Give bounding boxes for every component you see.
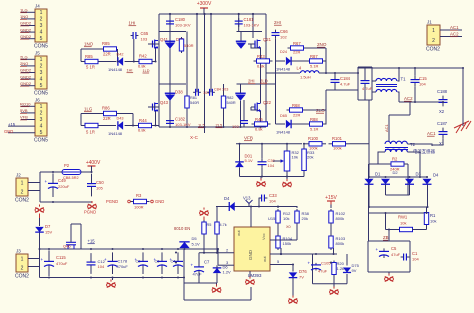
resistor R3 100R [131,199,150,203]
capacitor C4 [170,252,184,274]
transistor Q22 [251,103,261,113]
label C180 [175,17,186,22]
value 5.1R b [86,130,95,135]
svg-text:C181: C181 [244,17,255,22]
diode D01 zener 5.1V [235,162,244,167]
value 6.8k [138,64,146,69]
net label 2HI [274,20,282,25]
svg-text:22R: 22R [103,52,111,57]
svg-text:RO10: RO10 [20,102,31,107]
svg-text:4.7uF: 4.7uF [340,82,351,87]
resistor R88 5.1R [307,122,326,126]
svg-text:1N4148: 1N4148 [276,66,291,71]
svg-text:R42: R42 [139,54,147,59]
svg-text:R85: R85 [102,41,110,46]
value 10k [292,155,298,160]
wire gnd2 stub [286,177,288,181]
svg-text:P2: P2 [64,163,70,168]
inductor T1 primary [376,78,397,81]
svg-text:D7: D7 [45,224,51,229]
wire gnd row [240,176,305,178]
svg-text:5.1V: 5.1V [245,158,254,163]
net label AC2 j1 [450,32,459,37]
value 22R r68 [293,113,300,118]
svg-text:103: 103 [141,37,148,42]
wire +300V stem [203,8,205,14]
svg-text:1NO: 1NO [84,42,94,47]
wire r2 row [369,163,392,165]
svg-text:1NO: 1NO [20,14,28,19]
svg-text:+: + [376,247,379,252]
wire d76 top [292,265,294,272]
label C105 47uF [321,261,331,266]
transistor Q46 [66,224,81,249]
value 104 c1 [412,257,419,262]
wire T1 prim top [372,80,376,82]
resistor R85b 5.1R [85,59,98,63]
svg-text:105: 105 [96,186,103,191]
svg-text:800k: 800k [336,216,345,221]
wire hbridge mid right2 [237,83,276,85]
svg-text:RW1: RW1 [398,215,408,220]
label R81 540R [190,96,197,100]
svg-text:R45: R45 [255,117,263,122]
svg-text:1LG: 1LG [84,107,93,112]
svg-text:10k: 10k [283,216,289,221]
wire row 213 [369,212,428,214]
svg-text:1HI: 1HI [127,69,133,73]
ground flower R5 [200,208,209,216]
svg-text:PGND: PGND [84,210,96,215]
inductor L4 [301,71,319,73]
wire c15 up [414,68,416,76]
junction dots top bus [169,13,254,15]
capacitor C180 [166,18,174,27]
wire bridge plus [386,194,410,196]
net label 1LG J4 pin 1 [20,8,28,13]
label C15 [419,76,427,81]
svg-text:104: 104 [419,82,426,87]
net label +15 rail [88,239,96,244]
wire c178 gnd stub [112,278,114,281]
power +15V a [325,195,337,205]
svg-text:1: 1 [21,256,24,262]
net label 1NO J4 pin 2 [20,14,28,19]
transistor Q43 [149,103,159,113]
svg-text:1N4148: 1N4148 [108,131,123,136]
svg-text:15V: 15V [45,230,52,235]
value 1.5uH [300,75,311,80]
svg-text:540R: 540R [190,101,199,105]
resistor R102 800k [329,209,333,225]
capacitor C6 4.7uF [361,77,370,88]
label R44 [139,118,147,123]
svg-text:100k: 100k [333,145,342,150]
wire 2LO to bottom [325,90,327,110]
port V13 glyph [246,200,253,207]
svg-text:+300V: +300V [197,1,212,7]
wire center col r81 top [186,32,188,97]
resistor R1 10k [424,211,428,227]
svg-text:5.1R: 5.1R [310,127,319,132]
wire zb right [409,241,411,272]
svg-text:2LD: 2LD [260,79,268,84]
label current transformer [413,148,436,155]
wire rw lead r [412,229,427,231]
svg-text:103: 103 [203,91,209,95]
wire c105 frame left [312,254,314,284]
inductor T1 secondary [376,89,397,92]
label R86 [102,106,110,111]
value 100R [134,205,144,210]
wire vfb left drop [239,144,241,162]
wire r85b lead [81,61,85,63]
wire hbridge mid right [237,31,263,33]
svg-text:Q43: Q43 [160,100,169,105]
capacitor C66 [272,30,280,39]
svg-text:5 1R: 5 1R [86,65,95,70]
net PGND R3 [106,199,118,204]
svg-text:2HI: 2HI [274,20,281,25]
capacitor C65 [131,32,139,39]
wire d76 bot [292,278,294,296]
wire j3 pin1 [28,258,40,260]
wire T1 sec top [398,68,400,81]
wire d6 bot [216,273,218,283]
wire c66 column [275,39,277,85]
svg-text:AC1: AC1 [384,123,389,132]
capacitor C84 [207,89,215,96]
power +400V [86,160,101,170]
wire c7 bot [198,271,200,283]
wire CON5 J5 pin 3 [21,72,35,74]
label R104 [283,236,293,241]
svg-text:1N4148: 1N4148 [276,129,291,134]
svg-text:J2: J2 [16,173,21,178]
ground flower D76 [289,296,298,304]
diode D24 1N4148 [286,57,291,66]
junction dot r104 [280,253,282,255]
resistor R68 22R [287,108,306,112]
svg-text:GND2: GND2 [20,21,32,26]
wire pin3 row [218,264,234,266]
svg-text:22R: 22R [293,50,300,55]
wire T2 core1 [385,147,408,149]
net label GND2 J4 pin 5 [20,34,32,39]
wire c182 bot stub [169,126,171,127]
wire q21 source col [260,48,262,85]
svg-text:R88: R88 [310,117,318,122]
net label 2LO [316,108,325,113]
svg-text:C50: C50 [96,180,104,185]
diode D42 1N4148 [118,57,123,66]
label R88 [310,117,318,122]
label D76 [299,269,307,274]
wire r38 to 240 [296,223,298,240]
svg-text:+: + [104,257,107,262]
wire VFB row [236,143,302,145]
diode D6 [213,268,222,273]
value R44 6.8k [138,128,146,133]
resistor R100 100k [305,142,326,146]
resistor R12 10k [276,209,280,225]
power +300V [197,1,212,12]
svg-text:C2: C2 [136,260,141,264]
wire r12 drop [277,207,279,209]
wire 1LG left vert [80,114,82,126]
wire CON5 J6 pin 1 [21,105,35,107]
svg-text:5: 5 [40,130,43,136]
svg-text:2NO: 2NO [317,42,327,47]
value 47uF c7 [193,272,203,277]
resistor R43 6.8k [254,59,273,63]
svg-text:5: 5 [40,83,43,89]
label 1N4148 D65 [276,129,291,134]
net label 2LG J5 pin 1 [20,55,28,60]
wire CON5 J4 pin 4 [21,31,35,33]
wire r32 drop [286,144,288,151]
wire ac1 right [409,102,411,115]
svg-text:T1: T1 [401,77,407,82]
svg-text:R87: R87 [310,54,318,59]
label R87 [310,54,318,59]
wire left col to zb [368,207,370,241]
ground flower U13 [246,277,255,285]
svg-text:3: 3 [40,70,43,76]
svg-text:out: out [236,230,241,236]
net label RO10 J6 [20,102,31,107]
wire CON5 J6 pin 3 [21,119,35,121]
wire T1 prim bot [372,91,376,93]
svg-text:CON5: CON5 [34,91,48,97]
net 8010 EN [174,226,190,231]
wire d75 frame right b [346,274,348,284]
svg-text:J3: J3 [16,249,21,254]
net X0 [286,225,291,229]
svg-text:220uF: 220uF [58,184,70,189]
label C115 [56,255,66,260]
wire chassis link [462,122,464,126]
wire center col C180 [169,14,171,127]
pin 2 [226,248,229,253]
pin 3 [226,260,229,265]
svg-text:V13: V13 [243,196,251,201]
capacitor C86 [193,89,201,96]
net label VFB [244,136,253,141]
capacitor C184 4.7uF [331,76,340,87]
svg-text:1: 1 [40,10,43,16]
wire r88 right [323,110,326,124]
net label AC1 j1 [450,25,459,30]
transistor Q41 [149,40,159,50]
value 10k r12 [283,216,289,221]
value 10k rw1 [400,221,406,226]
wire r104 bottom [280,248,282,254]
label C12 [98,259,106,264]
wire r2 right lead [404,163,408,165]
wire d71 stub bot [240,101,242,127]
wire center col r82 bot [223,108,225,127]
wire CON5 J4 pin 1 [21,11,35,13]
wire r38 drop [296,207,298,209]
wire AC1 drop [388,115,390,142]
label 1N4148 D24 [276,66,291,71]
label R82 540R [227,96,234,100]
wire c7 top lead [198,253,200,266]
capacitor C5 47uF [376,247,390,258]
label D39 [176,37,184,42]
resistor R42 6.8k [139,59,152,63]
svg-text:VFB: VFB [20,115,28,120]
label D4b [433,173,439,178]
net label ZB [383,235,389,240]
resistor R104 150k [276,234,280,250]
label C3 [155,260,160,264]
wire j2 join [39,172,41,202]
wire j1 pin2 [440,36,462,38]
wire hbridge mid left2 [159,83,186,85]
svg-text:150k: 150k [283,241,292,246]
svg-text:R82: R82 [227,96,234,100]
label R4 4.7k [220,223,227,227]
svg-text:9V: 9V [352,268,357,273]
value 47uF c5 [391,252,401,257]
wire r42 right [152,61,156,63]
svg-text:5.1R: 5.1R [310,64,319,69]
svg-text:2: 2 [432,38,435,44]
svg-text:ZB: ZB [383,235,389,240]
value 1.2k [337,266,345,271]
value 470uF [56,261,68,266]
svg-text:+15V: +15V [325,195,337,201]
svg-text:D1: D1 [375,172,381,177]
label C50 [96,180,104,185]
ground flower D7 top [35,205,44,213]
label C182 [175,117,186,122]
label C181 [244,17,255,22]
wire CON5 J4 pin 5 [21,38,35,40]
diode D39 [165,41,175,49]
net label GND2 J5 pin 4 [20,74,32,79]
wire r86b lead [81,125,85,127]
svg-text:C65: C65 [141,31,149,36]
wire c6 top stub [364,67,366,78]
svg-text:C184: C184 [340,76,351,81]
wire zb drop [388,230,390,242]
svg-text:D4: D4 [433,173,439,178]
svg-text:47uF: 47uF [193,272,203,277]
value X1 [439,141,445,146]
svg-text:D24: D24 [280,50,287,54]
svg-text:103-1KV: 103-1KV [244,23,260,28]
wire frame left [357,67,359,100]
label R32 10k [292,150,300,155]
label RW1 [398,215,408,220]
label D4 [224,196,230,201]
inductor T2 secondary [385,149,407,152]
power label +15 at CON5 J6 pin4 [8,122,16,127]
svg-text:C1: C1 [412,251,418,256]
svg-text:CON2: CON2 [426,47,440,53]
wire CON5 J6 pin 5 [8,132,35,134]
label R1 [430,213,436,218]
wire r87 right [323,48,326,61]
label D42 [117,53,124,57]
wire half bridge node 1 [148,43,159,45]
svg-text:C7: C7 [204,260,210,265]
svg-text:R67: R67 [293,41,301,46]
wire q22 drain col [260,84,262,103]
wire right rail out [462,68,464,126]
diode D4 bridge [423,179,432,185]
wire q21 drain col [252,14,254,38]
wire d24 r87 [292,60,310,62]
wire c187 bottom [432,139,443,146]
svg-text:GND2: GND2 [20,81,32,86]
svg-text:1HI: 1HI [129,21,136,26]
wire j2 pin1 [28,182,40,184]
svg-text:7V: 7V [299,275,304,280]
svg-text:2LG: 2LG [20,55,28,60]
wire q22 source col [260,111,262,128]
resistor R20 1.2k [332,261,336,277]
net label GND2 J5 pin 5 [20,81,32,86]
wire 1NO left vert [80,49,82,62]
diode D65 1N4148 [286,120,291,129]
resistor R2 240R [391,162,404,166]
value P2 fuse [63,176,79,180]
label C7 [204,260,210,265]
connector CON2 J2 [15,173,29,204]
resistor R82 540R [221,94,225,110]
transistor Q21 [251,40,261,50]
wire frame top [358,66,372,68]
label R103 [336,236,346,241]
value C182 103-1KV [175,122,191,127]
wire bridge top [369,176,428,178]
wire frame right [371,67,373,100]
wire j2 pin2 [28,190,40,192]
ground flower PGND [88,201,97,209]
svg-text:1: 1 [432,28,435,34]
svg-text:10k: 10k [292,155,298,160]
svg-text:X-C: X-C [190,135,199,140]
svg-text:R43: R43 [257,54,265,59]
net label 2LD mid [260,79,268,84]
svg-text:R3: R3 [136,193,142,198]
wire rw lead l [386,229,401,231]
svg-text:R2: R2 [392,157,398,162]
wire j1 pin1 [440,29,462,31]
svg-text:C84 103: C84 103 [214,88,228,92]
value 104 c33 [269,199,276,204]
wire 1LG row [81,113,104,115]
svg-text:GND: GND [4,129,13,134]
label R85b [85,54,93,59]
wire bridge minus [369,206,428,208]
connector CON2 J3 [15,249,29,280]
svg-text:5 1R: 5 1R [86,130,95,135]
label R100 [308,136,319,141]
svg-text:Q21: Q21 [263,37,272,42]
svg-text:C180: C180 [175,17,186,22]
wire d6 gnd stub [216,283,218,286]
wire T2 left down [378,152,385,160]
value R82 540R [227,101,236,105]
diode D71 [235,93,245,101]
wire center col c86 [196,14,198,92]
svg-text:1.2k: 1.2k [337,266,345,271]
